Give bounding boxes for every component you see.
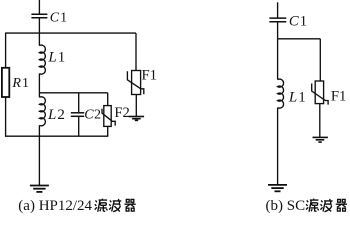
label L1 (circuit a) bbox=[47, 50, 65, 66]
wire: F2 to bottom bus bbox=[107, 126, 109, 136]
wire: top lead into C1 (circuit a) bbox=[38, 0, 40, 14]
caption (a) CJK char BO (wave) bbox=[109, 199, 121, 212]
caption (a) HP12/24 filter bbox=[18, 198, 92, 214]
wire: F1 to its ground (circuit b) bbox=[319, 104, 321, 138]
varistor F2 (diagonal stroke) bbox=[102, 109, 115, 126]
ground (below L1, circuit b) bbox=[268, 185, 287, 191]
label L2 bbox=[47, 107, 65, 123]
varistor F2 (box) bbox=[104, 106, 111, 127]
varistor F1 (circuit a, diagonal stroke) bbox=[127, 71, 143, 94]
caption (a) CJK char LV (filter) bbox=[95, 199, 108, 212]
caption (b) CJK char LV (filter) bbox=[306, 199, 319, 212]
svg-text:C1: C1 bbox=[289, 14, 307, 30]
capacitor C1 (circuit a) bbox=[31, 14, 47, 18]
label C1 (circuit b) bbox=[289, 14, 307, 30]
svg-text:R1: R1 bbox=[11, 76, 29, 91]
svg-text:C1: C1 bbox=[50, 10, 67, 25]
svg-text:F2: F2 bbox=[114, 105, 130, 121]
wire: top horizontal bus (circuit a) bbox=[6, 32, 136, 34]
wire: junction to L2 bbox=[38, 93, 40, 98]
caption (b) CJK char BO (wave) bbox=[320, 199, 332, 212]
label R1 bbox=[11, 76, 29, 91]
wire: mid junction horizontal line bbox=[39, 92, 107, 94]
wire: C2 to bottom bus bbox=[78, 117, 80, 136]
wire: top lead into C1 (circuit b) bbox=[277, 2, 279, 17]
wire: L2 to bottom bus bbox=[38, 125, 40, 136]
wire: junction down to F1 (circuit b) bbox=[319, 39, 321, 81]
svg-text:L1: L1 bbox=[288, 89, 306, 105]
svg-text:L2: L2 bbox=[47, 107, 65, 123]
svg-text:(a) HP12/24: (a) HP12/24 bbox=[18, 198, 92, 214]
varistor F1 (circuit a, box) bbox=[132, 71, 141, 95]
capacitor C1 (circuit b) bbox=[269, 18, 286, 22]
wire: junction line down to C2 bbox=[78, 93, 80, 113]
label C1 (circuit a) bbox=[50, 10, 67, 25]
label L1 (circuit b) bbox=[288, 89, 306, 105]
wire: R1 to bottom bus bbox=[5, 97, 7, 136]
wire: bottom bus to main ground stem bbox=[38, 136, 40, 185]
svg-text:F1: F1 bbox=[142, 68, 158, 84]
ground (main, circuit a) bbox=[30, 186, 49, 192]
wire: junction line down to F2 bbox=[107, 93, 109, 106]
inductor L1 (circuit a) bbox=[39, 45, 45, 74]
wire: left branch down to R1 bbox=[5, 33, 7, 68]
ground (below F1, circuit a) bbox=[129, 117, 144, 121]
svg-text:L1: L1 bbox=[47, 50, 65, 66]
wire: L1 to mid junction node bbox=[38, 74, 40, 93]
caption (a) CJK char QI (device) bbox=[124, 199, 135, 211]
resistor R1 bbox=[2, 68, 9, 97]
wire: C1 to top bus node bbox=[38, 18, 40, 33]
wire: junction to L1 (circuit b) bbox=[277, 39, 279, 80]
svg-text:F1: F1 bbox=[331, 88, 347, 104]
inductor L1 (circuit b) bbox=[278, 79, 284, 108]
varistor F1 (circuit b, box) bbox=[315, 81, 323, 104]
wire: C1 to junction node (circuit b) bbox=[277, 22, 279, 38]
varistor F1 (circuit b, diagonal stroke) bbox=[312, 84, 328, 105]
label F1 (circuit b) bbox=[331, 88, 347, 104]
svg-text:C2: C2 bbox=[84, 108, 101, 123]
caption (b) CJK char QI (device) bbox=[336, 199, 347, 211]
wire: L1 to ground (circuit b) bbox=[277, 108, 279, 185]
ground (below F1, circuit b) bbox=[313, 137, 328, 142]
wire: right branch down to F1 (circuit a) bbox=[135, 33, 137, 70]
inductor L2 bbox=[39, 97, 45, 126]
caption (b) SC filter bbox=[266, 198, 306, 214]
svg-text:(b) SC: (b) SC bbox=[266, 198, 306, 214]
label F1 (circuit a) bbox=[142, 68, 158, 84]
label C2 bbox=[84, 108, 101, 123]
wire: bottom horizontal bus (circuit a) bbox=[5, 135, 108, 137]
wire: top bus to L1 bbox=[38, 33, 40, 46]
wire: junction horizontal (circuit b) bbox=[278, 38, 321, 40]
wire: F1 to its ground bbox=[135, 95, 137, 117]
capacitor C2 bbox=[71, 113, 84, 117]
label F2 bbox=[114, 105, 130, 121]
